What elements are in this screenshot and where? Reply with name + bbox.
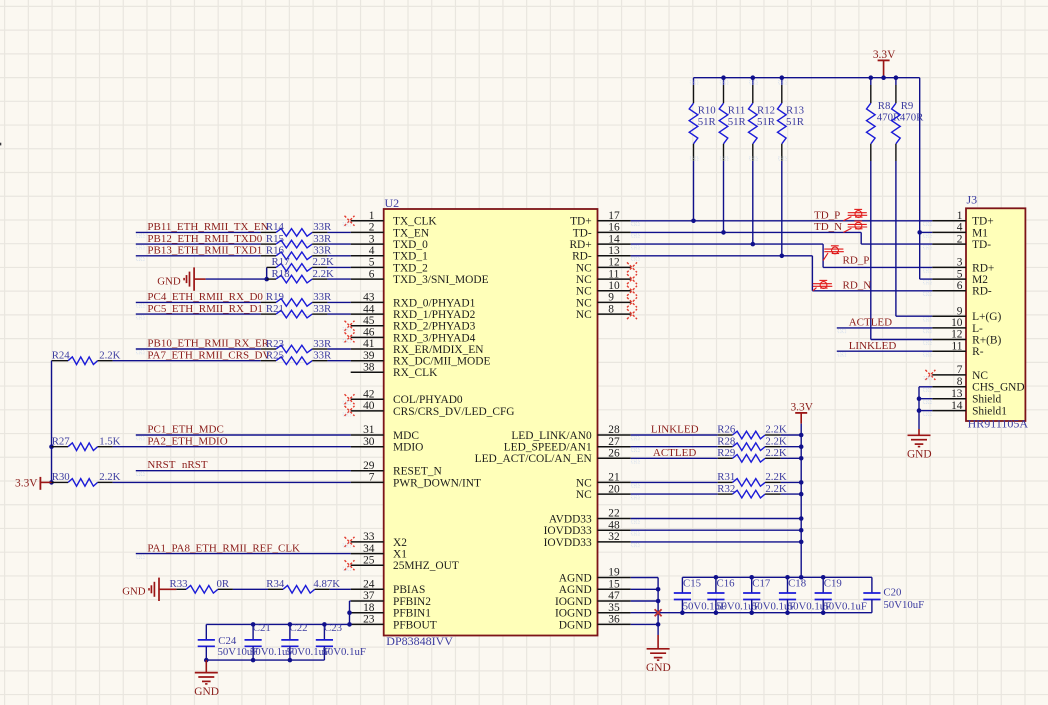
svg-text:LINKLED: LINKLED [651,424,699,436]
svg-text:Shield: Shield [972,394,1001,406]
wire IOGND row to caps bottom bus [631,612,872,614]
U2 pin 1 TX_CLK [351,210,438,228]
jumper TD_P [843,209,867,220]
svg-text:R27: R27 [52,435,71,447]
svg-text:33R: 33R [313,233,332,245]
junction [322,622,327,627]
svg-text:NC: NC [576,477,592,489]
wire net PA1_PA8_ETH_RMII_REF_CLK [136,554,351,559]
J3 pin 12 R+(B) [924,329,1002,347]
svg-text:R33: R33 [170,578,188,590]
svg-text:2.2K: 2.2K [313,256,334,268]
svg-text:NC: NC [576,286,592,298]
J3 pin 9 L+(G) [924,305,1002,323]
junction [894,75,899,80]
svg-text:33R: 33R [313,350,332,362]
U2 pin 27 LED_SPEED/AN1 [504,436,631,454]
svg-text:51R: 51R [728,116,747,128]
net label PB10_ETH_RMII_RX_ER [147,338,269,350]
svg-text:AVDD33: AVDD33 [549,513,592,525]
U2 value label DP83848IVV [386,634,453,648]
no-connect X at U2 right pin y=314.1 [627,309,637,319]
U2 pin 31 MDC [351,424,419,442]
svg-text:C20: C20 [883,587,901,599]
U2 pin 7 PWR_DOWN/INT [351,472,481,490]
net label RD_N [843,279,872,291]
net label PC4_ETH_RMII_RX_D0 [147,291,263,303]
svg-text:2.2K: 2.2K [765,424,786,436]
svg-text:LINKLED: LINKLED [849,340,897,352]
no-connect X at U2 left pin y=399.2 [343,394,355,404]
svg-text:26: 26 [608,448,620,460]
junction [49,480,54,485]
wire PWR_DOWN net [113,481,351,483]
svg-text:RD+: RD+ [569,239,591,251]
svg-text:13: 13 [951,388,963,400]
no-connect X at U2 left pin y=565.2 [343,560,355,570]
svg-text:R25: R25 [266,350,284,362]
svg-text:33R: 33R [313,303,332,315]
net label PA1_PA8_ETH_RMII_REF_CLK [147,542,300,554]
svg-text:50V10uF: 50V10uF [883,599,924,611]
no-connect X at U2 right pin y=267.4 [627,262,637,272]
svg-text:35: 35 [608,602,620,614]
wire AVDD/IOVDD to 3.3V rail [631,542,802,547]
svg-text:J3: J3 [967,193,978,207]
svg-text:TD_N: TD_N [814,221,842,233]
svg-text:7: 7 [957,364,963,376]
U2 pin 3 TXD_0 [351,233,428,251]
wire M2 net [920,278,933,280]
svg-text:34: 34 [363,543,375,555]
resistor R15 33R [261,233,332,248]
net label LINKLED (at U2) [651,424,699,436]
junction [714,610,719,615]
U2 pin 48 IOVDD33 [544,519,631,537]
svg-text:29: 29 [363,460,375,472]
svg-text:NRST: NRST [147,459,175,471]
svg-text:R11: R11 [728,105,746,117]
svg-text:PB11_ETH_RMII_TX_EN: PB11_ETH_RMII_TX_EN [147,221,268,233]
U2 pin 28 LED_LINK/AN0 [511,424,630,442]
svg-text:2.2K: 2.2K [765,483,786,495]
connector J3 HR911105A component body [966,208,1025,421]
svg-text:RESET_N: RESET_N [393,466,442,478]
net label PB13_ETH_RMII_TXD1 [147,245,262,257]
svg-text:GND: GND [157,275,181,287]
svg-text:RD-: RD- [572,251,592,263]
U2 pin 41 RX_ER/MDIX_EN [351,338,484,356]
svg-text:51R: 51R [786,116,805,128]
junction [251,658,256,663]
wire net PC1_ETH_MDC [136,435,351,440]
junction [917,396,922,401]
svg-text:RXD_1/PHYAD2: RXD_1/PHYAD2 [393,309,476,321]
svg-text:R16: R16 [266,245,285,257]
svg-text:CHS_GND: CHS_GND [972,382,1025,394]
svg-text:40: 40 [363,400,375,412]
U2 pin 12 NC [576,257,631,275]
U2 pin 19 AGND [559,567,631,585]
svg-text:R32: R32 [717,483,735,495]
svg-text:R9: R9 [901,100,914,112]
capacitor C17 50V0.1uF [743,577,795,612]
svg-text:TD-: TD- [573,227,592,239]
svg-text:C18: C18 [788,578,806,590]
resistor R23 33R [261,338,332,353]
svg-text:C17: C17 [752,578,771,590]
wire net PB11_ETH_RMII_TX_EN [136,232,351,237]
svg-text:11: 11 [952,340,963,352]
svg-text:8: 8 [957,376,963,388]
svg-text:23: 23 [363,614,375,626]
wire net PC5_ETH_RMII_RX_D1 [136,314,351,319]
junction [204,658,209,663]
svg-text:45: 45 [363,315,375,327]
resistor R9 470R [892,78,924,317]
resistor R32 2.2K [631,483,802,499]
U2 pin 22 AVDD33 [549,508,631,526]
no-connect X at U2 right pin y=279.1 [627,274,637,284]
U2 pin 16 TD- [573,222,631,240]
U2 pin 45 RXD_2/PHYAD3 [351,315,476,333]
svg-text:GND: GND [646,662,671,674]
wire caps top bus (3.3V) [682,576,872,578]
net label NRST [147,459,175,471]
U2 designator label [385,196,400,210]
svg-text:R12: R12 [757,105,775,117]
resistor R27 1.5K [52,435,121,450]
svg-text:4.87K: 4.87K [313,578,340,590]
U2 pin 43 RXD_0/PHYAD1 [351,292,476,310]
junction [799,492,804,497]
svg-text:PA2_ETH_MDIO: PA2_ETH_MDIO [147,435,227,447]
svg-text:C21: C21 [253,622,271,634]
svg-text:48: 48 [608,519,620,531]
svg-text:RX_ER/MDIX_EN: RX_ER/MDIX_EN [393,344,484,356]
svg-text:27: 27 [608,436,620,448]
svg-text:17: 17 [608,210,620,222]
svg-text:R21: R21 [266,303,284,315]
svg-text:TXD_1: TXD_1 [393,251,428,263]
junction [799,540,804,545]
svg-text:PA1_PA8_ETH_RMII_REF_CLK: PA1_PA8_ETH_RMII_REF_CLK [147,542,300,554]
svg-text:2.2K: 2.2K [765,471,786,483]
svg-text:12: 12 [608,257,620,269]
junction [821,610,826,615]
svg-text:10: 10 [951,317,963,329]
U2 pin 35 IOGND [555,602,631,620]
svg-text:L+(G): L+(G) [972,311,1001,323]
junction [656,599,661,604]
svg-text:33R: 33R [313,221,332,233]
svg-text:R26: R26 [717,424,736,436]
J3 pin 5 M2 [924,268,989,286]
svg-text:R28: R28 [717,435,735,447]
svg-text:NC: NC [576,262,592,274]
svg-text:3: 3 [957,257,963,269]
J3 pin 6 RD- [924,280,992,298]
no-connect X at J3 pin 7 [924,370,935,380]
junction [799,456,804,461]
wire 3.3V top bus [694,78,920,279]
svg-text:TX_CLK: TX_CLK [393,216,437,228]
wire RD+ net [631,244,933,267]
resistor R16 33R [261,245,332,260]
svg-text:2.2K: 2.2K [765,435,786,447]
svg-text:46: 46 [363,327,375,339]
svg-text:NC: NC [576,297,592,309]
U2 pin 33 X2 [351,531,408,549]
svg-text:4: 4 [369,245,375,257]
resistor R29 2.2K [631,447,802,463]
resistor R19 33R [261,291,332,306]
junction [780,75,785,80]
junction [288,622,293,627]
U2 pin 30 MDIO [351,436,424,454]
resistor R24 2.2K [52,349,121,364]
svg-text:38: 38 [363,362,375,374]
no-connect X at U2 right pin y=290.8 [627,286,637,296]
svg-text:COL/PHYAD0: COL/PHYAD0 [393,394,463,406]
svg-text:RXD_0/PHYAD1: RXD_0/PHYAD1 [393,297,476,309]
junction [49,444,54,449]
svg-text:1: 1 [957,210,963,222]
U2 pin 10 NC [576,280,631,298]
svg-text:50V0.1uF: 50V0.1uF [322,646,366,658]
junction [799,444,804,449]
power 3.3V (right rail) [790,402,813,424]
svg-text:M2: M2 [972,274,988,286]
wire TD- net [631,232,933,244]
junction [288,658,293,663]
capacitor C16 50V0.1uF [707,577,759,612]
svg-text:R15: R15 [266,233,284,245]
svg-text:R8: R8 [878,100,891,112]
resistor R34 4.87K [266,578,340,593]
junction [799,575,804,580]
junction [799,433,804,438]
svg-text:30: 30 [363,436,375,448]
U2 pin 23 PFBOUT [351,614,437,632]
svg-text:DGND: DGND [559,619,592,631]
svg-text:NC: NC [576,274,592,286]
wire RD- net [631,256,933,291]
U2 pin 39 RX_DC/MII_MODE [351,350,491,368]
wire 3.3V rail right [800,424,802,578]
svg-text:TD+: TD+ [570,216,592,228]
resistor R30 2.2K [52,471,121,486]
J3 pin 4 M1 [924,222,989,240]
U2 pin 38 RX_CLK [351,362,438,380]
svg-text:2: 2 [957,233,963,245]
wire net PB10_ETH_RMII_RX_ER [136,349,351,354]
wire PFB vertical [350,601,351,624]
svg-text:R23: R23 [266,338,284,350]
resistor R26 2.2K [631,424,802,440]
no-connect X at U2 left pin y=220.8 [343,216,355,226]
U2 pin 40 CRS/CRS_DV/LED_CFG [351,400,515,418]
svg-text:2.2K: 2.2K [765,447,786,459]
U2 pin 13 RD- [572,245,631,263]
svg-text:C22: C22 [290,622,308,634]
svg-text:51R: 51R [757,116,776,128]
svg-text:IOGND: IOGND [555,596,592,608]
J3 pin 1 TD+ [924,210,994,228]
svg-text:R19: R19 [266,291,284,303]
wire GND to R17/R18 [206,267,267,279]
svg-text:NC: NC [972,370,988,382]
resistor R12 51R [749,78,776,244]
U2 pin 32 IOVDD33 [544,531,631,549]
J3 pin 3 RD+ [924,257,995,275]
svg-text:31: 31 [363,424,375,436]
svg-text:5: 5 [957,268,963,280]
junction [821,575,826,580]
no-connect X at U2 left pin y=410.9 [343,406,355,416]
U2 pin 17 TD+ [570,210,631,228]
svg-text:50V0.1uF: 50V0.1uF [823,601,867,613]
svg-text:R29: R29 [717,447,735,459]
svg-text:33R: 33R [313,245,332,257]
J3 pin 2 TD- [924,233,992,251]
svg-text:TXD_0: TXD_0 [393,239,428,251]
svg-text:47: 47 [608,590,620,602]
svg-text:13: 13 [608,245,620,257]
svg-text:R13: R13 [786,105,804,117]
J3 value label HR911105A [968,417,1029,431]
wire 3.3V rail left [51,361,53,483]
resistor R13 51R [778,78,805,256]
svg-text:51R: 51R [698,116,717,128]
svg-text:PWR_DOWN/INT: PWR_DOWN/INT [393,477,481,489]
junction [347,622,352,627]
J3 pin 8 CHS_GND [924,376,1025,394]
svg-text:15: 15 [608,579,620,591]
svg-text:nRST: nRST [182,459,208,471]
svg-text:18: 18 [363,602,375,614]
U2 pin 6 TXD_3/SNI_MODE [351,268,489,286]
svg-text:R18: R18 [272,268,290,280]
capacitor C15 50V0.1uF [674,577,726,612]
svg-text:37: 37 [363,590,375,602]
wire net PB12_ETH_RMII_TXD0 [136,244,351,249]
svg-text:R30: R30 [52,471,70,483]
U2 pin 14 RD+ [569,233,630,251]
U2 pin 26 LED_ACT/COL/AN_EN [475,448,631,466]
jumper RD_P [823,246,844,261]
wire TD+ net [631,221,933,226]
no-connect X at U2 left pin y=325.7 [343,321,355,331]
junction [347,610,352,615]
ground GND (below J3) [907,429,932,461]
svg-text:43: 43 [363,292,375,304]
svg-text:4: 4 [957,222,963,234]
ground GND (below C24) [194,660,219,698]
net label ACTLED (at J3) [849,317,892,329]
svg-text:PFBIN2: PFBIN2 [393,596,431,608]
svg-text:IOVDD33: IOVDD33 [544,537,592,549]
svg-text:7: 7 [369,472,375,484]
svg-text:PBIAS: PBIAS [393,584,425,596]
jumper RD_N [813,280,833,290]
svg-text:11: 11 [608,268,619,280]
left-edge artifact mark [0,143,1,146]
no-connect X at U2 left pin y=541.9 [343,537,355,547]
svg-text:21: 21 [608,472,620,484]
junction [917,230,922,235]
svg-text:16: 16 [608,222,620,234]
resistor R33 0R [170,578,233,593]
junction [691,219,696,224]
svg-text:28: 28 [608,424,620,436]
U2 pin 5 TXD_2 [351,257,428,275]
junction [881,75,886,80]
net label TD_N [814,221,842,233]
svg-text:L-: L- [972,323,983,335]
net label PA2_ETH_MDIO [147,435,227,447]
resistor R10 51R [689,78,716,221]
svg-text:25: 25 [363,554,375,566]
U2 pin 29 RESET_N [351,460,442,478]
svg-text:TXD_3/SNI_MODE: TXD_3/SNI_MODE [393,274,489,286]
wire caps bottom bus (left) [206,659,324,661]
svg-text:PA7_ETH_RMII_CRS_DV: PA7_ETH_RMII_CRS_DV [147,349,270,361]
svg-text:HR911105A: HR911105A [968,417,1029,431]
junction [656,587,661,592]
svg-text:GND: GND [122,586,146,598]
U2 pin 47 IOGND [555,590,631,608]
junction [721,230,726,235]
resistor R17 2.2K [267,256,351,271]
svg-text:DP83848IVV: DP83848IVV [386,634,453,648]
power 3.3V (top) [873,49,896,77]
svg-text:RX_DC/MII_MODE: RX_DC/MII_MODE [393,356,490,368]
ground GND (below AGND rail) [646,635,671,674]
svg-text:36: 36 [608,614,620,626]
svg-text:TX_EN: TX_EN [393,227,429,239]
U2 pin 4 TXD_1 [351,245,428,263]
svg-text:LED_LINK/AN0: LED_LINK/AN0 [511,430,592,442]
wire net PA7_ETH_RMII_CRS_DV [113,360,351,362]
wire PFBOUT bus to caps [206,623,349,625]
svg-text:Shield1: Shield1 [972,406,1007,418]
svg-text:PC4_ETH_RMII_RX_D0: PC4_ETH_RMII_RX_D0 [147,291,263,303]
U2 pin 44 RXD_1/PHYAD2 [351,303,476,321]
no-connect X at U2 right pin y=302.4 [627,297,637,307]
jumper TD_N [843,221,867,232]
junction [799,528,804,533]
wire R34 to PBIAS [330,588,351,590]
svg-text:41: 41 [363,338,375,350]
svg-text:R-: R- [972,346,984,358]
U2 pin 9 NC [576,292,631,310]
svg-text:R31: R31 [717,471,735,483]
U2 pin 42 COL/PHYAD0 [351,388,463,406]
svg-text:RXD_3/PHYAD4: RXD_3/PHYAD4 [393,332,476,344]
svg-text:5: 5 [369,257,375,269]
svg-text:12: 12 [951,329,963,341]
capacitor C24 50V10uF [198,624,259,660]
svg-text:M1: M1 [972,227,988,239]
net label nRST [182,459,208,471]
resistor R31 2.2K [631,471,802,487]
svg-text:R10: R10 [698,105,716,117]
ground GND (left of R17/R18) [157,267,205,290]
svg-text:TXD_2: TXD_2 [393,262,428,274]
net label PC1_ETH_MDC [147,424,223,436]
resistor R14 33R [261,221,332,236]
